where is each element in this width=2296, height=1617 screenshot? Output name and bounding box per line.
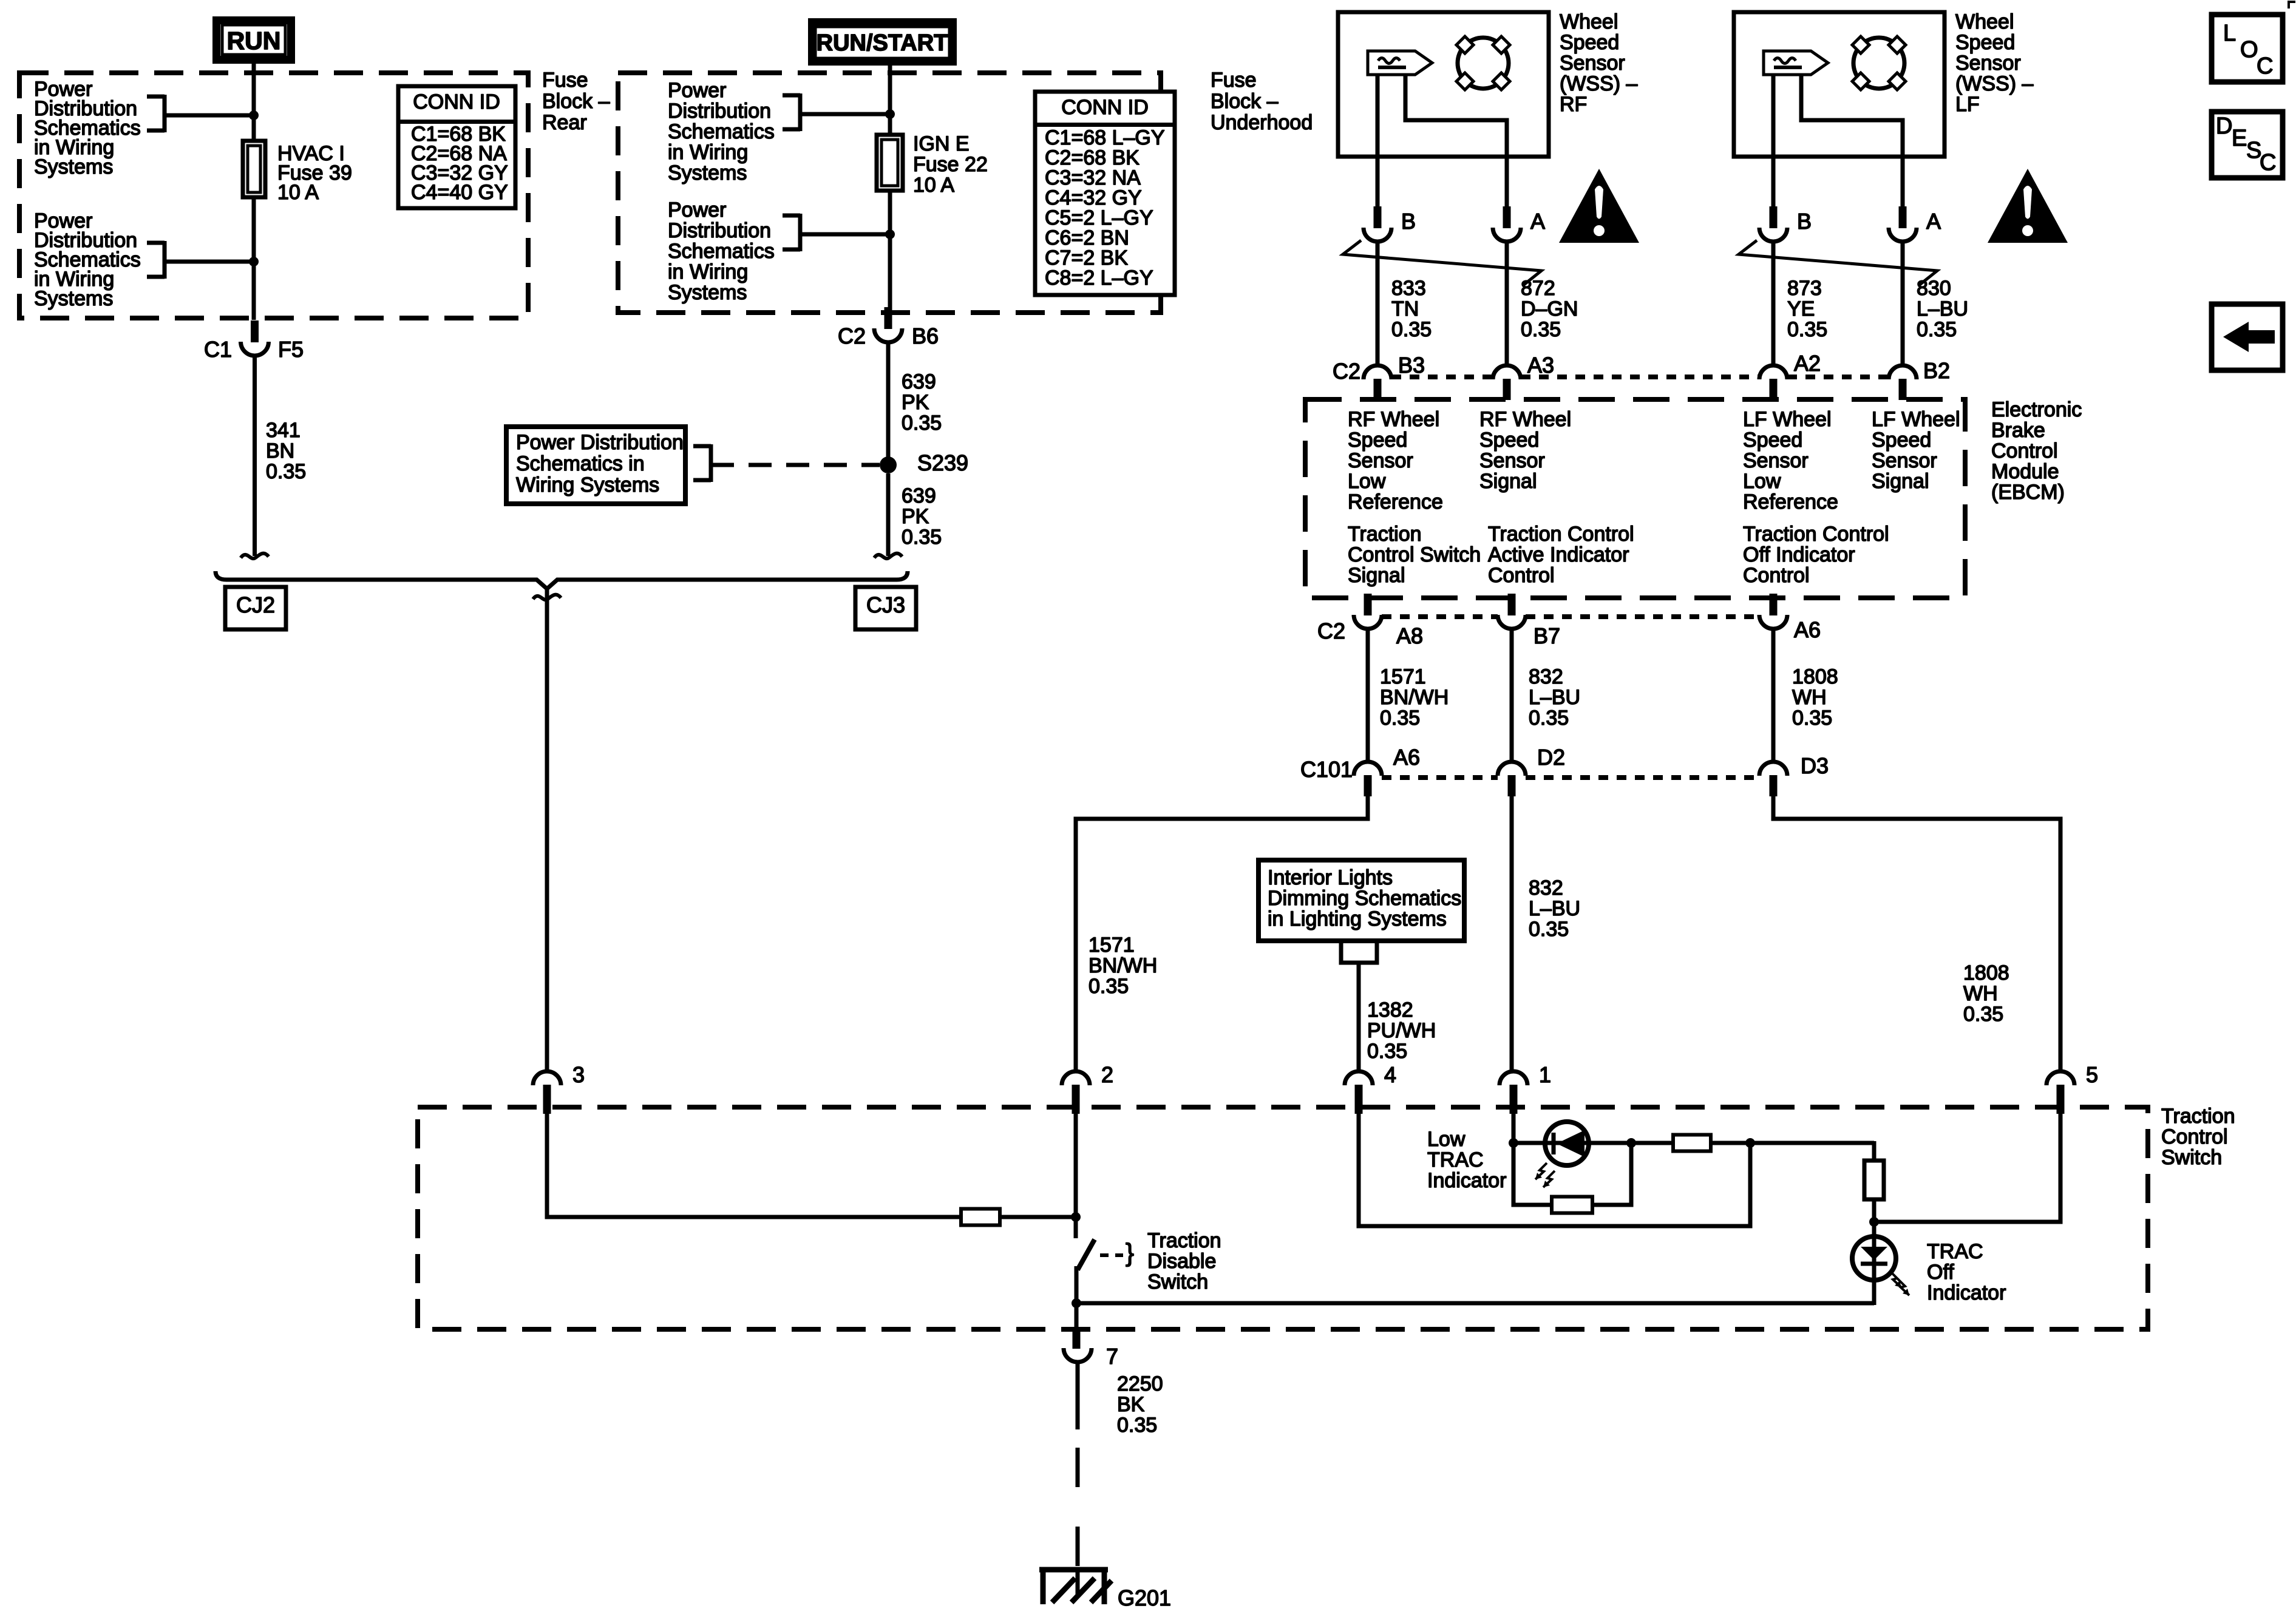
- LED TRAC off light arrows: [1890, 1271, 1901, 1287]
- fuse block - rear dashed box: [19, 73, 528, 318]
- svg-text:BN: BN: [266, 439, 294, 463]
- svg-text:1382: 1382: [1367, 998, 1413, 1022]
- svg-text:830: 830: [1917, 277, 1951, 300]
- svg-text:873: 873: [1787, 277, 1822, 300]
- svg-text:A: A: [1530, 209, 1545, 234]
- wire resistor to pin2 node: [1000, 1215, 1076, 1219]
- svg-text:PK: PK: [902, 505, 929, 528]
- svg-text:Sensor: Sensor: [1955, 52, 2021, 75]
- warning triangle LF: [1988, 169, 2068, 243]
- wire break symbol right: [874, 554, 902, 559]
- svg-text:1571: 1571: [1380, 665, 1426, 688]
- wire 833 TN: [1376, 242, 1380, 365]
- svg-text:0.35: 0.35: [1963, 1003, 2003, 1026]
- svg-text:341: 341: [266, 419, 301, 442]
- svg-text:B6: B6: [912, 324, 939, 348]
- terminal A6 of EBCM: [1770, 594, 1778, 615]
- svg-text:C4=40 GY: C4=40 GY: [411, 181, 508, 204]
- node junction below fuse 22: [885, 229, 895, 239]
- fuse F22 IGN E: [877, 135, 903, 191]
- wire C101-D3 to switch pin 5: [1773, 796, 2060, 1071]
- node top line mid: [1626, 1138, 1636, 1148]
- svg-text:Electronic: Electronic: [1991, 398, 2082, 421]
- wire WSS-LF pin B inside: [1771, 75, 1776, 206]
- wire RUN to fuse 39: [252, 64, 256, 142]
- svg-text:Reference: Reference: [1348, 490, 1443, 514]
- svg-text:0.35: 0.35: [902, 412, 942, 435]
- traction disable switch blade: [1078, 1239, 1095, 1270]
- svg-text:L–BU: L–BU: [1917, 297, 1968, 320]
- svg-text:Traction: Traction: [1348, 523, 1422, 546]
- node junction below fuse 39: [249, 257, 259, 266]
- svg-text:639: 639: [902, 370, 936, 393]
- svg-text:Systems: Systems: [668, 281, 747, 304]
- svg-text:Sensor: Sensor: [1872, 449, 1937, 472]
- svg-text:(WSS) –: (WSS) –: [1560, 72, 1638, 95]
- wire resistor R4 to node: [1872, 1199, 1877, 1222]
- wire 2250 BK dashed section: [1076, 1448, 1080, 1487]
- svg-text:Speed: Speed: [1955, 31, 2015, 54]
- terminal 4 of traction control switch: [1345, 1071, 1373, 1085]
- connector C1 terminal F5: [251, 320, 259, 342]
- terminal B2 of EBCM: [1889, 365, 1917, 379]
- wire fuse 39 to connector C1: [252, 197, 256, 320]
- svg-text:Traction: Traction: [1147, 1229, 1221, 1252]
- svg-text:CJ2: CJ2: [236, 592, 275, 617]
- svg-text:5: 5: [2086, 1062, 2098, 1087]
- svg-text:Speed: Speed: [1560, 31, 1619, 54]
- svg-text:0.35: 0.35: [266, 460, 306, 483]
- svg-text:B: B: [1797, 209, 1812, 234]
- terminal A6 of C101: [1354, 762, 1382, 776]
- node common junction: [1072, 1298, 1081, 1308]
- svg-text:Sensor: Sensor: [1348, 449, 1413, 472]
- wire fuse 22 to connector C2: [888, 191, 892, 307]
- power feed box RUN: [217, 21, 291, 60]
- wire bottom return to pin 7: [1076, 1301, 1874, 1306]
- wire 2250 BK: [1076, 1362, 1080, 1429]
- ground G201: [1076, 1570, 1080, 1595]
- svg-text:Rear: Rear: [542, 111, 587, 134]
- svg-text:C: C: [2257, 53, 2273, 79]
- svg-text:Wheel: Wheel: [1955, 10, 2014, 33]
- svg-text:Block –: Block –: [1211, 90, 1279, 113]
- svg-text:L–BU: L–BU: [1529, 686, 1580, 709]
- svg-text:A8: A8: [1396, 623, 1423, 648]
- terminal 2 of traction control switch: [1062, 1071, 1090, 1085]
- svg-text:WH: WH: [1792, 686, 1827, 709]
- wire top line corner to vertical resistor: [1872, 1141, 1877, 1162]
- svg-text:7: 7: [1106, 1344, 1118, 1369]
- svg-text:Reference: Reference: [1743, 490, 1838, 514]
- svg-text:0.35: 0.35: [1529, 918, 1569, 941]
- resistor R4 vertical: [1864, 1161, 1884, 1199]
- svg-text:10 A: 10 A: [277, 181, 319, 204]
- wire pin 3 to resistor: [547, 1106, 961, 1217]
- twisted pair symbol RF: [1343, 240, 1541, 285]
- svg-text:in Wiring: in Wiring: [668, 260, 748, 283]
- wire WSS-LF pin A inside: [1801, 75, 1903, 206]
- terminal 3 of traction control switch: [533, 1071, 561, 1085]
- svg-text:832: 832: [1529, 876, 1563, 900]
- svg-text:Signal: Signal: [1479, 470, 1537, 493]
- svg-text:0.35: 0.35: [1521, 318, 1561, 341]
- svg-text:RUN: RUN: [227, 27, 281, 55]
- svg-text:Control: Control: [1991, 439, 2058, 463]
- legend box LOC: [2212, 15, 2283, 82]
- wire pin 4 branch: [1359, 1106, 1750, 1226]
- wire break symbol center: [533, 595, 561, 600]
- svg-text:TRAC: TRAC: [1927, 1240, 1983, 1263]
- svg-text:L–BU: L–BU: [1529, 897, 1580, 920]
- LED TRAC off indicator circle: [1852, 1236, 1896, 1280]
- terminal D2 of C101: [1498, 762, 1526, 776]
- svg-text:C101: C101: [1300, 757, 1353, 782]
- svg-text:A6: A6: [1794, 617, 1821, 642]
- warning triangle RF: [1559, 169, 1639, 243]
- node TRAC off junction: [1869, 1217, 1879, 1227]
- legend box back arrow: [2212, 304, 2283, 370]
- node junction on fuse 22 feed: [885, 109, 895, 119]
- wire 830 L-BU: [1901, 242, 1905, 365]
- svg-text:C8=2 L–GY: C8=2 L–GY: [1045, 266, 1153, 290]
- svg-text:D3: D3: [1801, 753, 1829, 778]
- svg-text:4: 4: [1384, 1062, 1396, 1087]
- connector terminal B of WSS-LF: [1770, 206, 1778, 228]
- svg-text:0.35: 0.35: [1391, 318, 1432, 341]
- wire pin 2 down: [1074, 1106, 1078, 1238]
- connector dotted line C2 row: [1391, 375, 1493, 379]
- svg-text:0.35: 0.35: [1367, 1040, 1407, 1063]
- svg-text:C1: C1: [204, 337, 232, 362]
- svg-text:0.35: 0.35: [1917, 318, 1957, 341]
- bracket S239 note: [693, 444, 711, 449]
- svg-text:LF: LF: [1955, 93, 1980, 116]
- svg-text:Switch: Switch: [2161, 1146, 2222, 1169]
- svg-text:A6: A6: [1393, 745, 1420, 770]
- svg-text:Off Indicator: Off Indicator: [1743, 543, 1855, 566]
- wire 639 PK lower: [886, 473, 891, 556]
- svg-text:TN: TN: [1391, 297, 1419, 320]
- svg-text:10 A: 10 A: [913, 174, 954, 197]
- svg-text:833: 833: [1391, 277, 1426, 300]
- fuse F39 HVAC I: [243, 141, 265, 197]
- wheel speed sensor box WSS-RF: [1338, 12, 1549, 157]
- svg-text:CJ3: CJ3: [866, 592, 905, 617]
- terminal B7 of EBCM: [1508, 594, 1516, 615]
- terminal A8 of EBCM: [1364, 594, 1372, 615]
- svg-text:Control: Control: [1743, 564, 1810, 587]
- terminal D3 of C101: [1759, 762, 1787, 776]
- terminal A3 of EBCM: [1493, 365, 1521, 379]
- svg-text:Low: Low: [1348, 470, 1386, 493]
- terminal 5 of traction control switch: [2046, 1071, 2074, 1085]
- svg-text:0.35: 0.35: [1089, 975, 1129, 998]
- svg-text:832: 832: [1529, 665, 1563, 688]
- svg-text:Schematics in: Schematics in: [516, 452, 645, 475]
- svg-text:Speed: Speed: [1872, 429, 1931, 452]
- wire to switch pin 4: [1357, 963, 1361, 1071]
- connector terminal B of WSS-RF: [1374, 206, 1382, 228]
- svg-text:0.35: 0.35: [1529, 707, 1569, 730]
- svg-text:Systems: Systems: [34, 287, 113, 310]
- bracket below interior lights box: [1341, 942, 1377, 963]
- connector terminal A of WSS-LF: [1899, 206, 1907, 228]
- connector id table CONN ID (rear): [398, 86, 515, 208]
- svg-text:in Wiring: in Wiring: [668, 141, 748, 164]
- svg-text:Brake: Brake: [1991, 419, 2045, 442]
- svg-text:WH: WH: [1963, 982, 1998, 1005]
- wire brace to switch pin 3: [545, 588, 549, 1071]
- terminal B3 of EBCM: [1364, 365, 1391, 379]
- svg-text:Fuse 22: Fuse 22: [913, 153, 988, 176]
- dashed wire to splice S239: [711, 463, 880, 467]
- svg-text:Low: Low: [1743, 470, 1781, 493]
- connector terminal A of WSS-RF: [1503, 206, 1511, 228]
- page corner mark: [2289, 2, 2295, 8]
- svg-text:Wiring Systems: Wiring Systems: [516, 473, 659, 497]
- svg-text:0.35: 0.35: [1792, 707, 1832, 730]
- svg-text:1808: 1808: [1963, 961, 2009, 985]
- node pin2/resistor junction: [1071, 1212, 1081, 1222]
- wheel speed sensor box WSS-LF: [1734, 12, 1944, 157]
- power feed box RUN/START: [812, 22, 953, 62]
- bracket 2 (rear): [147, 241, 165, 245]
- svg-text:Fuse: Fuse: [1211, 69, 1257, 92]
- svg-text:CONN ID: CONN ID: [1061, 96, 1149, 119]
- wire 639 PK upper: [886, 342, 891, 465]
- traction control switch dashed box: [418, 1107, 2148, 1329]
- terminal 1 of traction control switch: [1500, 1071, 1527, 1085]
- svg-text:Control Switch: Control Switch: [1348, 543, 1481, 566]
- svg-text:D: D: [2216, 114, 2232, 139]
- connector C2 terminal B6: [885, 307, 892, 329]
- svg-text:F5: F5: [278, 337, 304, 362]
- svg-text:CONN ID: CONN ID: [413, 90, 500, 114]
- svg-text:1808: 1808: [1792, 665, 1838, 688]
- svg-text:Sensor: Sensor: [1479, 449, 1545, 472]
- svg-text:Interior Lights: Interior Lights: [1268, 866, 1393, 889]
- svg-text:Signal: Signal: [1872, 470, 1929, 493]
- wire blade to common node: [1075, 1266, 1079, 1305]
- svg-text:BK: BK: [1117, 1393, 1145, 1416]
- wire WSS-RF pin A inside: [1405, 75, 1507, 206]
- svg-text:2250: 2250: [1117, 1372, 1163, 1395]
- wire bracket to fuse 22 feed: [800, 112, 890, 117]
- svg-text:Traction Control: Traction Control: [1488, 523, 1634, 546]
- fuse block - underhood dashed box: [618, 73, 1161, 313]
- svg-text:639: 639: [902, 484, 936, 507]
- svg-text:in Lighting Systems: in Lighting Systems: [1268, 907, 1447, 931]
- svg-text:0.35: 0.35: [1380, 707, 1420, 730]
- svg-text:Off: Off: [1927, 1261, 1954, 1284]
- wire indicator top line: [1513, 1141, 1673, 1145]
- svg-text:C: C: [2260, 150, 2276, 175]
- resistor R1 in switch: [961, 1209, 1000, 1225]
- svg-text:Distribution: Distribution: [668, 219, 771, 242]
- svg-text:1571: 1571: [1089, 934, 1135, 957]
- svg-text:A3: A3: [1527, 353, 1554, 378]
- connector dotted line bottom row: [1382, 614, 1498, 619]
- svg-text:Systems: Systems: [668, 161, 747, 185]
- svg-text:872: 872: [1521, 277, 1555, 300]
- svg-text:Traction: Traction: [2161, 1105, 2235, 1128]
- svg-text:D2: D2: [1537, 745, 1565, 770]
- note power distribution schematics box (S239): [506, 427, 685, 504]
- LED low trac light arrows: [1535, 1163, 1547, 1179]
- svg-text:RF: RF: [1560, 93, 1587, 116]
- LED TRAC off diode symbol: [1861, 1247, 1887, 1260]
- svg-text:Signal: Signal: [1348, 564, 1405, 587]
- svg-text:Dimming Schematics: Dimming Schematics: [1268, 887, 1461, 910]
- switch mechanical dashed link: [1100, 1253, 1123, 1257]
- svg-text:Systems: Systems: [34, 155, 113, 178]
- tone wheel symbol WSS-LF: [1853, 38, 1904, 89]
- svg-text:B7: B7: [1533, 623, 1560, 648]
- svg-text:Control: Control: [2161, 1125, 2228, 1148]
- node top line right: [1745, 1138, 1755, 1148]
- svg-text:RUN/START: RUN/START: [817, 30, 948, 56]
- label box CJ2: [225, 587, 286, 629]
- svg-text:Schematics: Schematics: [668, 120, 775, 143]
- svg-text:Traction Control: Traction Control: [1743, 523, 1889, 546]
- svg-text:Module: Module: [1991, 460, 2059, 483]
- svg-text:0.35: 0.35: [902, 526, 942, 549]
- resistor R2 top line: [1673, 1135, 1711, 1151]
- svg-text:Underhood: Underhood: [1211, 111, 1313, 134]
- svg-text:BN/WH: BN/WH: [1089, 954, 1157, 977]
- svg-text:D–GN: D–GN: [1521, 297, 1578, 320]
- svg-text:(EBCM): (EBCM): [1991, 481, 2065, 504]
- sensor pickup symbol WSS-RF: [1368, 51, 1432, 75]
- svg-text:Low: Low: [1427, 1128, 1466, 1151]
- tone wheel symbol WSS-RF: [1458, 38, 1509, 89]
- wire bracket1 to fuse 39 feed: [165, 114, 254, 118]
- svg-text:Sensor: Sensor: [1560, 52, 1625, 75]
- splice S239: [880, 456, 897, 473]
- svg-text:C2: C2: [1317, 619, 1345, 643]
- svg-text:RF Wheel: RF Wheel: [1348, 408, 1439, 431]
- wire WSS-RF pin B inside: [1376, 75, 1380, 206]
- wire 1571 BN/WH upper: [1366, 629, 1370, 762]
- svg-text:Switch: Switch: [1147, 1270, 1208, 1293]
- svg-text:RF Wheel: RF Wheel: [1479, 408, 1571, 431]
- svg-text:B2: B2: [1923, 358, 1950, 383]
- svg-text:BN/WH: BN/WH: [1380, 686, 1449, 709]
- svg-text:PU/WH: PU/WH: [1367, 1019, 1436, 1042]
- bracket 1 (rear): [147, 95, 165, 99]
- svg-text:Sensor: Sensor: [1743, 449, 1809, 472]
- bracket 2 (underhood): [783, 214, 800, 218]
- current path brace CJ2/CJ3: [216, 571, 908, 589]
- svg-text:A: A: [1926, 209, 1941, 234]
- svg-text:3: 3: [572, 1062, 585, 1087]
- wire 832 L-BU upper: [1510, 629, 1514, 762]
- wire 341 BN: [253, 356, 257, 556]
- terminal 7 of traction control switch: [1075, 1303, 1079, 1329]
- wire bracket2 to fuse output: [165, 260, 254, 264]
- svg-text:}: }: [1126, 1238, 1134, 1267]
- svg-text:C2: C2: [1333, 359, 1360, 384]
- wire node to pin 5: [1874, 1106, 2060, 1222]
- electronic brake control module EBCM dashed box: [1305, 399, 1965, 598]
- svg-text:Distribution: Distribution: [668, 100, 771, 123]
- node top line left: [1509, 1138, 1518, 1148]
- svg-text:Indicator: Indicator: [1427, 1169, 1506, 1192]
- svg-text:Speed: Speed: [1743, 429, 1802, 452]
- label box CJ3: [855, 587, 916, 629]
- sensor pickup symbol WSS-LF: [1764, 51, 1828, 75]
- wire through TRAC off LED: [1872, 1222, 1877, 1305]
- svg-text:Speed: Speed: [1479, 429, 1539, 452]
- wire pin 1 down: [1512, 1106, 1516, 1143]
- LED low trac indicator circle: [1545, 1122, 1589, 1165]
- svg-text:Fuse: Fuse: [542, 69, 588, 92]
- svg-text:Control: Control: [1488, 564, 1555, 587]
- svg-text:B3: B3: [1398, 353, 1425, 378]
- wire C101-A6 to switch pin 2: [1076, 796, 1368, 1071]
- wire bracket2 to fuse 22 output: [800, 232, 890, 237]
- bracket 1 (underhood): [783, 93, 800, 98]
- svg-text:Active Indicator: Active Indicator: [1488, 543, 1629, 566]
- twisted pair symbol LF: [1739, 240, 1937, 285]
- svg-text:S239: S239: [917, 450, 968, 475]
- svg-text:Schematics: Schematics: [668, 240, 775, 263]
- svg-text:TRAC: TRAC: [1427, 1148, 1484, 1171]
- svg-text:Wheel: Wheel: [1560, 10, 1618, 33]
- svg-text:1: 1: [1539, 1062, 1551, 1087]
- svg-text:A2: A2: [1794, 351, 1821, 376]
- svg-text:YE: YE: [1787, 297, 1815, 320]
- svg-text:IGN E: IGN E: [913, 132, 970, 155]
- legend box DESC: [2212, 112, 2283, 178]
- wire 1808 WH upper: [1771, 629, 1776, 762]
- connector id table CONN ID (underhood): [1035, 92, 1175, 295]
- svg-text:E: E: [2232, 126, 2247, 151]
- svg-text:LF Wheel: LF Wheel: [1743, 408, 1832, 431]
- svg-text:C2: C2: [838, 324, 866, 348]
- svg-text:B: B: [1401, 209, 1416, 234]
- svg-text:Indicator: Indicator: [1927, 1281, 2006, 1304]
- svg-text:Disable: Disable: [1147, 1250, 1216, 1273]
- svg-text:Block –: Block –: [542, 90, 610, 113]
- wire C101-D2 to switch pin 1: [1510, 796, 1514, 1071]
- svg-text:2: 2: [1101, 1062, 1113, 1087]
- wire RUN/START to fuse 22: [888, 66, 892, 136]
- node junction on fuse 39 feed: [249, 110, 259, 120]
- wire 873 YE: [1771, 242, 1776, 365]
- svg-text:Speed: Speed: [1348, 429, 1407, 452]
- svg-text:Power: Power: [668, 79, 726, 102]
- wire 872 D-GN: [1505, 242, 1509, 365]
- LED low trac diode symbol: [1552, 1133, 1556, 1154]
- svg-text:0.35: 0.35: [1787, 318, 1827, 341]
- connector dotted line C101 row: [1382, 775, 1498, 780]
- svg-text:PK: PK: [902, 391, 929, 414]
- note interior lights dimming schematics box: [1258, 860, 1464, 941]
- svg-text:0.35: 0.35: [1117, 1414, 1157, 1437]
- svg-text:L: L: [2223, 21, 2236, 46]
- svg-text:(WSS) –: (WSS) –: [1955, 72, 2034, 95]
- svg-text:LF Wheel: LF Wheel: [1872, 408, 1960, 431]
- svg-text:Power Distribution: Power Distribution: [516, 431, 684, 454]
- svg-text:G201: G201: [1118, 1585, 1171, 1610]
- sub branch with resistor R3: [1513, 1143, 1552, 1205]
- wire break symbol left: [241, 554, 269, 559]
- terminal A2 of EBCM: [1759, 365, 1787, 379]
- svg-text:Power: Power: [668, 198, 726, 222]
- svg-text:O: O: [2240, 37, 2258, 63]
